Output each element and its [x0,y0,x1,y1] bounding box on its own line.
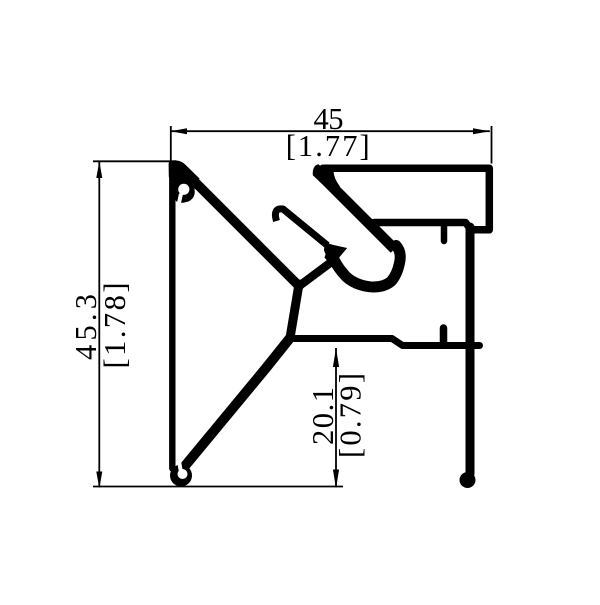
svg-text:[1.77]: [1.77] [286,129,370,163]
svg-text:[1.78]: [1.78] [98,283,132,369]
svg-text:[0.79]: [0.79] [334,373,368,458]
